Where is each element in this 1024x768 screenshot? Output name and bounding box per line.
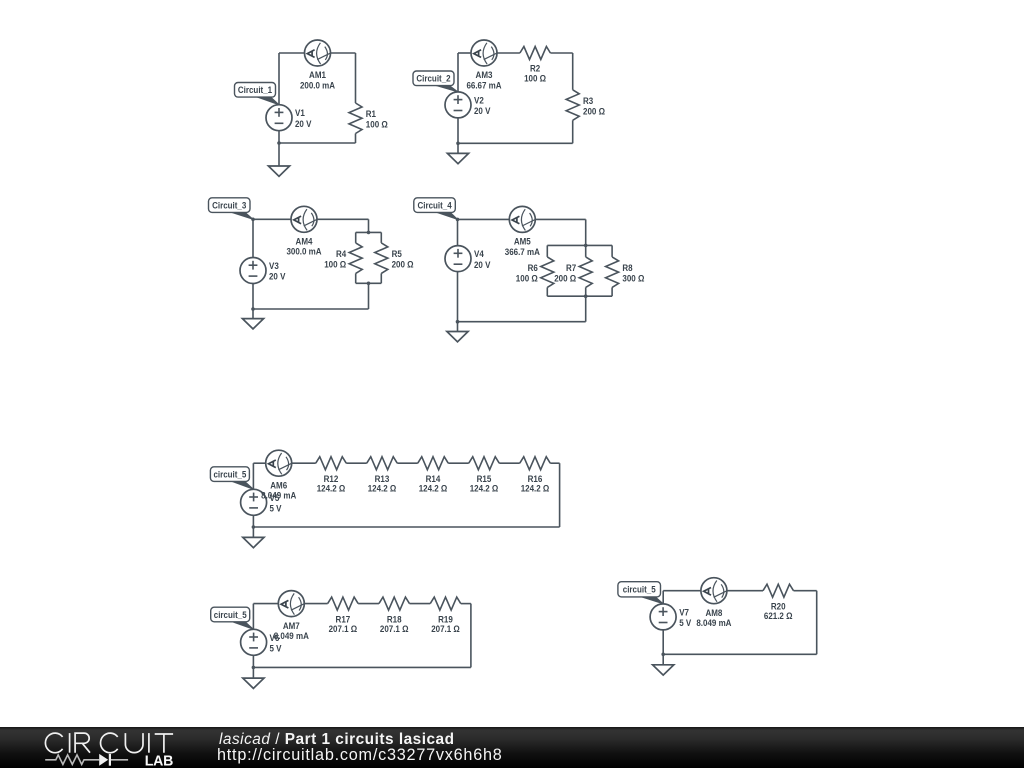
junction tag node c4: [456, 218, 460, 222]
wire right upper c2: [572, 53, 574, 90]
wire R19 to corner: [461, 603, 471, 605]
resistor R15: [469, 457, 500, 494]
wire parallel bottom bus c4: [547, 295, 612, 297]
wire top-left c5: [253, 462, 266, 464]
wire right c5: [559, 463, 561, 527]
footer title: [219, 732, 455, 747]
wire R4 bottom lead: [355, 273, 357, 283]
wire bottom c4: [458, 321, 586, 323]
wire R12 to R13: [346, 462, 367, 464]
wire left lower c7: [662, 630, 664, 665]
svg-text:LAB: LAB: [145, 753, 174, 768]
resistor R19: [430, 597, 461, 634]
node label circuit_5: [210, 467, 253, 490]
ammeter AM4: [286, 206, 321, 256]
wire R6 top lead: [546, 245, 548, 257]
wire R16 to corner: [550, 462, 559, 464]
wire R6 bottom lead: [546, 287, 548, 296]
ammeter AM8: [696, 578, 731, 628]
wire R8 bottom lead: [611, 287, 613, 296]
wire left upper c7: [662, 591, 664, 604]
wire bottom c2: [458, 142, 573, 144]
wire top-left c2: [458, 52, 471, 54]
wire left upper c6: [252, 604, 254, 630]
wire top-right c3: [317, 218, 369, 220]
logo word LAB: [145, 753, 174, 768]
ammeter AM7: [274, 591, 309, 641]
voltage source V6: [241, 629, 283, 655]
junction parallel bottom c3: [367, 282, 371, 286]
junction parallel bottom c4: [584, 294, 588, 298]
wire top-mid c2: [497, 52, 520, 54]
CircuitLab logo word CIRCUIT: [45, 733, 173, 753]
resistor R7: [554, 257, 592, 288]
wire R15 to R16: [499, 462, 520, 464]
junction c2: [456, 142, 460, 146]
wire left upper c2: [457, 53, 459, 92]
junction tag node c3: [251, 218, 255, 222]
resistor R16: [520, 457, 551, 494]
logo resistor-diode symbol: [45, 755, 128, 765]
wire top-right c4: [535, 218, 585, 220]
wire R5 bottom lead: [380, 273, 382, 283]
voltage source V1: [266, 105, 312, 131]
junction c1: [277, 141, 281, 145]
wire into parallel c3: [368, 219, 370, 232]
wire R5 top lead: [380, 232, 382, 243]
node label Circuit_3: [209, 198, 254, 220]
resistor R18: [379, 597, 410, 634]
wire left upper c1: [278, 53, 280, 105]
wire left upper c3: [252, 219, 254, 257]
wire left lower c1: [278, 131, 280, 166]
junction bottom c3: [251, 307, 255, 311]
wire parallel bottom bus c3: [356, 282, 382, 284]
junction bottom c4: [456, 320, 460, 324]
wire into parallel c4: [585, 219, 587, 245]
wire top-left c3: [253, 218, 291, 220]
resistor R4: [324, 243, 362, 274]
wire R7 top lead: [585, 245, 587, 257]
ground: [447, 332, 468, 342]
resistor R2: [520, 47, 551, 84]
wire ammeter to R17: [304, 603, 328, 605]
wire left lower c5: [252, 515, 254, 537]
wire right c6: [470, 604, 472, 668]
ammeter AM6: [261, 450, 296, 500]
wire ammeter to R12: [292, 462, 316, 464]
wire R20 to corner: [794, 590, 817, 592]
wire out of parallel c4: [585, 296, 587, 322]
ground: [447, 153, 468, 163]
wire left lower c3: [252, 283, 254, 318]
wire bottom c3: [253, 308, 369, 310]
resistor R8: [606, 257, 645, 288]
ground: [653, 665, 674, 675]
resistor R20: [763, 584, 794, 621]
junction parallel top c3: [367, 231, 371, 235]
wire top-right c1: [331, 52, 356, 54]
junction c5: [252, 525, 256, 529]
footer bar: [0, 727, 1024, 768]
ammeter AM3: [466, 40, 501, 90]
wire bottom c6: [253, 666, 471, 668]
resistor R6: [516, 257, 554, 288]
wire bottom c7: [663, 653, 817, 655]
wire top-left c6: [253, 603, 278, 605]
wire R14 to R15: [448, 462, 469, 464]
junction c6: [252, 666, 256, 670]
node label Circuit_4: [414, 198, 458, 220]
wire top-left c4: [458, 218, 510, 220]
wire left lower c2: [457, 118, 459, 154]
wire left upper c4: [457, 219, 459, 245]
wire bottom c5: [253, 526, 559, 528]
node label circuit_5: [618, 582, 663, 604]
resistor R1: [349, 103, 388, 134]
wire ammeter to R20: [727, 590, 763, 592]
wire right lower c2: [572, 120, 574, 143]
resistor R3: [566, 90, 605, 121]
voltage source V5: [241, 489, 283, 515]
ground: [243, 678, 264, 688]
ground: [242, 319, 263, 329]
wire parallel top bus c3: [356, 231, 382, 233]
wire top-right c2: [550, 52, 572, 54]
resistor R5: [375, 243, 414, 274]
ground: [268, 166, 289, 176]
junction parallel top c4: [584, 244, 588, 248]
voltage source V2: [445, 92, 491, 118]
ammeter AM5: [505, 206, 540, 256]
resistor R17: [328, 597, 359, 634]
resistor R12: [316, 457, 347, 494]
wire R7 bottom lead: [585, 287, 587, 296]
wire R13 to R14: [397, 462, 418, 464]
wire right lower c1: [355, 134, 357, 144]
voltage source V3: [240, 258, 286, 284]
ammeter AM1: [300, 40, 335, 90]
node label circuit_5: [211, 607, 254, 629]
junction c7: [661, 653, 665, 657]
voltage source V4: [445, 246, 491, 272]
ground: [243, 537, 264, 547]
wire left upper c5: [252, 463, 254, 489]
wire left lower c4: [457, 272, 459, 332]
resistor R13: [367, 457, 398, 494]
wire R18 to R19: [409, 603, 430, 605]
wire parallel top bus c4: [547, 244, 612, 246]
node label Circuit_1: [235, 83, 280, 105]
wire R17 to R18: [358, 603, 379, 605]
wire R4 top lead: [355, 232, 357, 243]
footer url: [217, 747, 503, 763]
wire right upper c1: [355, 53, 357, 103]
wire right c7: [816, 591, 818, 655]
wire bottom c1: [279, 142, 356, 144]
resistor R14: [418, 457, 449, 494]
wire top-left c1: [279, 52, 305, 54]
wire R8 top lead: [611, 245, 613, 257]
voltage source V7: [650, 604, 692, 630]
node label Circuit_2: [413, 71, 458, 92]
wire out of parallel c3: [368, 283, 370, 309]
wire left lower c6: [252, 655, 254, 678]
wire top-left c7: [663, 590, 701, 592]
